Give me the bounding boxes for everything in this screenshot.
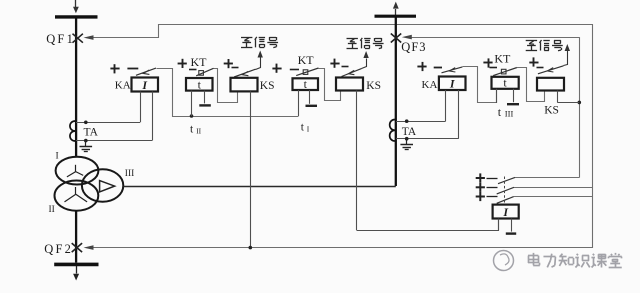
svg-text:KA: KA <box>422 79 438 91</box>
svg-text:III: III <box>505 108 514 118</box>
svg-text:TA: TA <box>84 127 99 139</box>
svg-text:KS: KS <box>260 80 275 92</box>
svg-text:QF3: QF3 <box>401 40 426 54</box>
svg-text:KT: KT <box>494 51 511 65</box>
svg-text:II: II <box>196 127 201 136</box>
svg-text:II: II <box>49 205 55 215</box>
svg-text:III: III <box>125 169 135 179</box>
svg-text:QF1: QF1 <box>46 32 75 46</box>
svg-text:KA: KA <box>115 80 131 92</box>
svg-text:TA: TA <box>402 126 417 138</box>
svg-text:QF2: QF2 <box>44 242 73 256</box>
svg-text:KS: KS <box>366 80 381 92</box>
svg-text:KT: KT <box>298 53 315 67</box>
svg-text:KS: KS <box>544 105 559 117</box>
svg-text:KT: KT <box>191 55 208 69</box>
svg-text:I: I <box>56 152 59 162</box>
